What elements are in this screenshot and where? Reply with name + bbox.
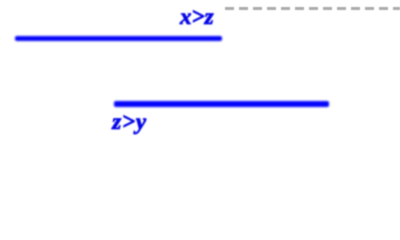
label x>z xyxy=(180,4,214,30)
line segment x (top) xyxy=(15,36,222,41)
line segment y (bottom) xyxy=(114,101,330,107)
label z>y xyxy=(112,109,147,135)
dashed gray mark (top right) xyxy=(225,7,400,10)
